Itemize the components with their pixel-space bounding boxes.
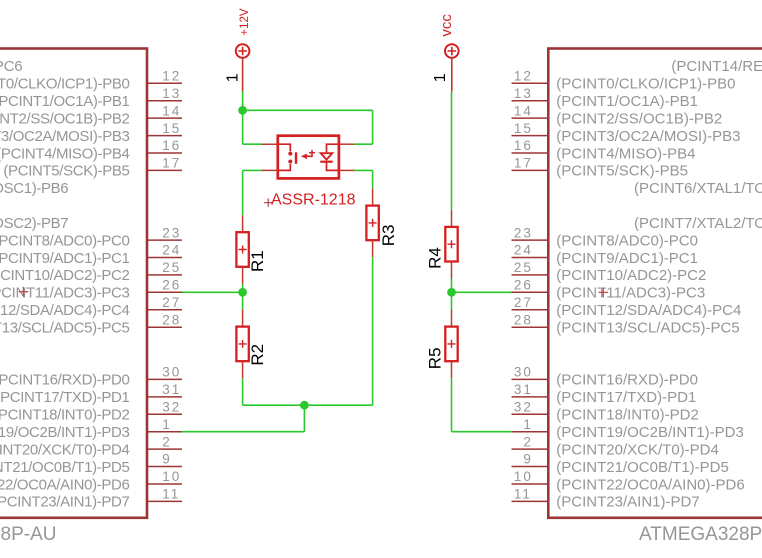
wire down to opto right-top pin: [372, 110, 374, 144]
svg-text:31: 31: [514, 382, 533, 397]
supply +12V pin: [242, 58, 244, 92]
IC U2 pin 16 stub: [512, 152, 549, 154]
svg-text:28: 28: [162, 312, 181, 327]
svg-text:(PCINT13/SCL/ADC5)-PC5: (PCINT13/SCL/ADC5)-PC5: [0, 320, 130, 337]
opto pin stubs: [261, 143, 277, 145]
svg-text:R5: R5: [426, 347, 445, 369]
IC U1 pin 30 stub: [147, 378, 182, 380]
IC U1 pin 24 stub: [147, 257, 182, 259]
IC U2 origin cross: [599, 288, 609, 298]
svg-text:ASSR-1218: ASSR-1218: [271, 191, 356, 208]
svg-text:27: 27: [514, 295, 533, 310]
resistor R3 body: [366, 206, 378, 241]
svg-text:2: 2: [162, 434, 172, 449]
resistor R2 body: [236, 327, 248, 362]
resistor R4 origin plus: [448, 240, 456, 248]
IC U1 pin 23 stub: [147, 239, 182, 241]
svg-text:15: 15: [514, 121, 533, 136]
svg-text:16: 16: [514, 138, 533, 153]
IC U2 pin 14 stub: [512, 117, 549, 119]
svg-text:1: 1: [523, 417, 533, 432]
svg-text:(PCINT18/INT0)-PD2: (PCINT18/INT0)-PD2: [0, 407, 130, 424]
svg-text:27: 27: [162, 295, 181, 310]
opto gate bar: [295, 152, 297, 164]
wire junction right toward opto: [243, 109, 373, 111]
svg-text:(PCINT1/OC1A)-PB1: (PCINT1/OC1A)-PB1: [0, 93, 130, 110]
svg-text:1: 1: [162, 417, 172, 432]
svg-text:(PCINT10/ADC2)-PC2: (PCINT10/ADC2)-PC2: [556, 267, 706, 284]
resistor R4 top pin: [451, 210, 453, 227]
IC U1 pin 32 stub: [147, 413, 182, 415]
svg-text:16: 16: [162, 138, 181, 153]
wire opto left-bottom pin to R1: [243, 169, 262, 171]
resistor R3 bottom pin: [372, 240, 374, 257]
wire R1 to junction PC3: [242, 284, 244, 293]
wire down to R3: [372, 170, 374, 188]
svg-text:1: 1: [432, 73, 449, 82]
IC U2 pin 30 stub: [512, 378, 549, 380]
opto origin cross: [264, 198, 272, 206]
svg-text:(PCINT1/OC1A)-PB1: (PCINT1/OC1A)-PB1: [556, 93, 698, 110]
svg-text:(PCINT20/XCK/T0)-PD4: (PCINT20/XCK/T0)-PD4: [0, 441, 130, 458]
wire R3 down to bottom rail: [372, 257, 374, 405]
svg-text:(PCINT8/ADC0)-PC0: (PCINT8/ADC0)-PC0: [0, 232, 130, 249]
svg-text:10: 10: [514, 469, 533, 484]
svg-text:(PCINT23/AIN1)-PD7: (PCINT23/AIN1)-PD7: [556, 494, 699, 511]
svg-text:2: 2: [523, 434, 533, 449]
resistor R1 top pin: [242, 215, 244, 232]
svg-text:17: 17: [514, 156, 533, 171]
wire +12V down to junction: [242, 91, 244, 110]
svg-text:vcc: vcc: [438, 14, 455, 37]
IC U2 pin 31 stub: [512, 396, 549, 398]
svg-text:(PCINT5/SCK)-PB5: (PCINT5/SCK)-PB5: [3, 163, 129, 180]
resistor R2 bottom pin: [242, 361, 244, 378]
resistor R5 body: [445, 327, 457, 362]
junction +12V node: [238, 106, 247, 115]
supply VCC pin: [451, 58, 453, 92]
IC U2 pin 28 stub: [512, 326, 549, 328]
IC U2 ATMEGA328P (right, partially off-screen) body outline: [548, 49, 762, 518]
IC U2 pin 27 stub: [512, 309, 549, 311]
svg-text:13: 13: [162, 86, 181, 101]
junction node PC3 left: [238, 288, 247, 297]
svg-text:(PCINT9/ADC1)-PC1: (PCINT9/ADC1)-PC1: [556, 250, 698, 267]
IC U1 pin 27 stub: [147, 309, 182, 311]
svg-text:11: 11: [162, 487, 180, 502]
svg-text:31: 31: [162, 382, 181, 397]
IC U2 pin 12 stub: [512, 82, 549, 84]
wire junction down to R2: [242, 292, 244, 309]
IC U1 pin 26 stub: [147, 291, 182, 293]
supply +12V plus sign: [238, 47, 247, 56]
svg-text:(PCINT12/SDA/ADC4)-PC4: (PCINT12/SDA/ADC4)-PC4: [556, 302, 741, 319]
wire down to R1: [242, 170, 244, 215]
svg-text:(PCINT2/SS/OC1B)-PB2: (PCINT2/SS/OC1B)-PB2: [556, 110, 722, 127]
svg-text:28: 28: [514, 312, 533, 327]
wire to right IC pin 1 (PD3): [452, 431, 512, 433]
IC U1 pin 12 stub: [147, 82, 182, 84]
junction node bottom: [300, 401, 309, 410]
svg-text:R3: R3: [379, 225, 398, 247]
svg-text:12: 12: [162, 69, 181, 84]
supply VCC plus sign: [448, 47, 457, 56]
supply VCC symbol circle: [445, 44, 459, 58]
opto arrow head: [301, 154, 307, 159]
resistor R5 top pin: [451, 310, 453, 327]
svg-text:(PCINT20/XCK/T0)-PD4: (PCINT20/XCK/T0)-PD4: [556, 441, 719, 458]
IC U1 pin 1 stub: [147, 431, 182, 433]
svg-text:(PCINT22/OC0A/AIN0)-PD6: (PCINT22/OC0A/AIN0)-PD6: [556, 476, 744, 493]
svg-text:(PCINT21/OC0B/T1)-PD5: (PCINT21/OC0B/T1)-PD5: [0, 459, 130, 476]
wire into opto left-top pin: [243, 143, 262, 145]
wire to right IC pin 26 (PC3): [452, 291, 512, 293]
IC U2 pin 11 stub: [512, 500, 549, 502]
svg-text:12: 12: [514, 69, 533, 84]
opto LED cathode bar: [320, 161, 332, 163]
svg-text:32: 32: [514, 400, 533, 415]
IC U1 pin 2 stub: [147, 448, 182, 450]
supply +12V symbol circle: [236, 44, 250, 58]
IC U1 pin 14 stub: [147, 117, 182, 119]
IC U2 pin 17 stub: [512, 169, 549, 171]
IC U2 pin 25 stub: [512, 274, 549, 276]
IC U2 pin 26 stub: [512, 291, 549, 293]
svg-text:30: 30: [162, 365, 181, 380]
svg-text:10: 10: [162, 469, 181, 484]
svg-text:9: 9: [523, 452, 533, 467]
svg-text:(PCINT4/MISO)-PB4: (PCINT4/MISO)-PB4: [0, 145, 130, 162]
svg-text:(PCINT3/OC2A/MOSI)-PB3: (PCINT3/OC2A/MOSI)-PB3: [556, 128, 740, 145]
svg-text:14: 14: [514, 103, 533, 118]
junction node PC3 right: [447, 288, 456, 297]
IC U2 pin 23 stub: [512, 239, 549, 241]
svg-text:(PCINT21/OC0B/T1)-PD5: (PCINT21/OC0B/T1)-PD5: [556, 459, 729, 476]
IC U1 ATMEGA328P-AU (left, partially off-screen) body outline: [0, 49, 147, 518]
svg-text:15: 15: [162, 121, 181, 136]
svg-text:(PCINT19/OC2B/INT1)-PD3: (PCINT19/OC2B/INT1)-PD3: [0, 424, 130, 441]
resistor R5 bottom pin: [451, 361, 453, 378]
resistor R2 top pin: [242, 310, 244, 327]
svg-text:(PCINT0/CLKO/ICP1)-PB0: (PCINT0/CLKO/ICP1)-PB0: [0, 76, 130, 93]
wire into opto right-top pin: [354, 143, 372, 145]
opto LED cathode lead: [327, 162, 339, 171]
svg-text:1: 1: [224, 73, 241, 82]
IC U1 pin 15 stub: [147, 135, 182, 137]
resistor R3 origin plus: [369, 219, 377, 227]
svg-text:(PCINT17/TXD)-PD1: (PCINT17/TXD)-PD1: [556, 389, 696, 406]
svg-text:32: 32: [162, 400, 181, 415]
svg-text:(PCINT7/XTAL2/TOSC2)-PB7: (PCINT7/XTAL2/TOSC2)-PB7: [0, 215, 68, 232]
IC U1 pin 28 stub: [147, 326, 182, 328]
resistor R4 body: [445, 227, 457, 262]
svg-text:(PCINT12/SDA/ADC4)-PC4: (PCINT12/SDA/ADC4)-PC4: [0, 302, 130, 319]
resistor R1 body: [236, 232, 248, 267]
wire R2 to bottom rail: [242, 378, 244, 405]
IC U2 pin 9 stub: [512, 466, 549, 468]
svg-text:25: 25: [162, 260, 181, 275]
svg-text:25: 25: [514, 260, 533, 275]
IC U1 pin 13 stub: [147, 100, 182, 102]
svg-text:26: 26: [162, 278, 181, 293]
opto LED triangle: [321, 153, 333, 159]
IC U2 pin 24 stub: [512, 257, 549, 259]
resistor R5 origin plus: [448, 340, 456, 348]
wire junction down left branch: [242, 110, 244, 144]
IC U2 pin 2 stub: [512, 448, 549, 450]
svg-text:R1: R1: [248, 250, 267, 272]
wire R4 to junction PC3 right: [451, 279, 453, 293]
opto plus mark: [309, 150, 315, 156]
svg-text:(PCINT8/ADC0)-PC0: (PCINT8/ADC0)-PC0: [556, 232, 698, 249]
svg-text:23: 23: [514, 225, 533, 240]
svg-text:(PCINT6/XTAL1/TOSC1)-PB6: (PCINT6/XTAL1/TOSC1)-PB6: [634, 180, 762, 197]
IC U2 pin 13 stub: [512, 100, 549, 102]
svg-text:11: 11: [514, 487, 532, 502]
IC U1 pin 31 stub: [147, 396, 182, 398]
IC U2 pin 15 stub: [512, 135, 549, 137]
opto MOSFET contact rail: [278, 144, 291, 170]
svg-text:24: 24: [162, 243, 181, 258]
IC U1 pin 16 stub: [147, 152, 182, 154]
svg-text:+12V: +12V: [239, 8, 251, 36]
svg-text:(PCINT22/OC0A/AIN0)-PD6: (PCINT22/OC0A/AIN0)-PD6: [0, 476, 130, 493]
svg-text:(PCINT5/SCK)-PB5: (PCINT5/SCK)-PB5: [556, 163, 688, 180]
resistor R2 origin plus: [239, 340, 247, 348]
svg-text:(PCINT11/ADC3)-PC3: (PCINT11/ADC3)-PC3: [0, 285, 130, 302]
svg-text:(PCINT18/INT0)-PD2: (PCINT18/INT0)-PD2: [556, 407, 699, 424]
svg-text:(PCINT17/TXD)-PD1: (PCINT17/TXD)-PD1: [0, 389, 130, 406]
opto-relay OK1 ASSR-1218 body: [278, 136, 339, 179]
svg-text:(PCINT3/OC2A/MOSI)-PB3: (PCINT3/OC2A/MOSI)-PB3: [0, 128, 130, 145]
resistor R3 top pin: [372, 189, 374, 206]
svg-text:(PCINT23/AIN1)-PD7: (PCINT23/AIN1)-PD7: [0, 494, 130, 511]
opto contact dot bottom: [288, 160, 292, 164]
svg-text:(PCINT0/CLKO/ICP1)-PB0: (PCINT0/CLKO/ICP1)-PB0: [556, 76, 735, 93]
svg-text:24: 24: [514, 243, 533, 258]
svg-text:(PCINT16/RXD)-PD0: (PCINT16/RXD)-PD0: [0, 372, 130, 389]
svg-text:(PCINT13/SCL/ADC5)-PC5: (PCINT13/SCL/ADC5)-PC5: [556, 320, 739, 337]
svg-text:30: 30: [514, 365, 533, 380]
svg-text:ATMEGA328P-AU: ATMEGA328P-AU: [0, 524, 57, 545]
svg-text:(PCINT14/RESET)-PC6: (PCINT14/RESET)-PC6: [671, 58, 762, 75]
svg-text:14: 14: [162, 103, 181, 118]
svg-text:(PCINT11/ADC3)-PC3: (PCINT11/ADC3)-PC3: [556, 285, 705, 302]
svg-text:(PCINT6/XTAL1/TOSC1)-PB6: (PCINT6/XTAL1/TOSC1)-PB6: [0, 180, 68, 197]
IC U2 pin 1 stub: [512, 431, 549, 433]
bottom rail wire R2-R3: [243, 404, 373, 406]
svg-text:(PCINT19/OC2B/INT1)-PD3: (PCINT19/OC2B/INT1)-PD3: [556, 424, 744, 441]
IC U1 pin 25 stub: [147, 274, 182, 276]
svg-text:26: 26: [514, 278, 533, 293]
wire to left IC pin 1 (PD3): [182, 431, 304, 433]
svg-text:(PCINT9/ADC1)-PC1: (PCINT9/ADC1)-PC1: [0, 250, 130, 267]
wire junction down to R5: [451, 292, 453, 309]
svg-text:9: 9: [162, 452, 172, 467]
svg-text:R2: R2: [248, 344, 267, 366]
wire from left IC pin 26: [182, 291, 243, 293]
svg-text:(PCINT14/RESET)-PC6: (PCINT14/RESET)-PC6: [0, 58, 22, 75]
svg-text:ATMEGA328P-AU: ATMEGA328P-AU: [639, 524, 762, 545]
wire opto right-bottom pin toward R3: [354, 169, 372, 171]
svg-text:(PCINT7/XTAL2/TOSC2)-PB7: (PCINT7/XTAL2/TOSC2)-PB7: [634, 215, 762, 232]
resistor R4 bottom pin: [451, 262, 453, 279]
IC U1 pin 17 stub: [147, 169, 182, 171]
wire R5 down: [451, 378, 453, 432]
IC U2 pin 32 stub: [512, 413, 549, 415]
IC U2 pin 10 stub: [512, 483, 549, 485]
resistor R1 bottom pin: [242, 267, 244, 284]
IC U1 pin 10 stub: [147, 483, 182, 485]
IC U1 pin 11 stub: [147, 500, 182, 502]
svg-text:(PCINT4/MISO)-PB4: (PCINT4/MISO)-PB4: [556, 145, 695, 162]
svg-text:17: 17: [162, 156, 181, 171]
opto LED anode lead: [327, 144, 339, 152]
svg-text:13: 13: [514, 86, 533, 101]
svg-text:R4: R4: [426, 247, 445, 269]
opto arrow shaft: [305, 155, 313, 157]
IC U1 pin 9 stub: [147, 466, 182, 468]
IC U1 origin cross: [19, 287, 29, 297]
wire bottom junction down: [303, 405, 305, 432]
resistor R1 origin plus: [239, 246, 247, 254]
svg-text:(PCINT10/ADC2)-PC2: (PCINT10/ADC2)-PC2: [0, 267, 130, 284]
svg-text:(PCINT2/SS/OC1B)-PB2: (PCINT2/SS/OC1B)-PB2: [0, 110, 130, 127]
wire VCC down to R4: [451, 91, 453, 209]
svg-text:(PCINT16/RXD)-PD0: (PCINT16/RXD)-PD0: [556, 372, 698, 389]
svg-text:23: 23: [162, 225, 181, 240]
opto contact dot top: [288, 152, 292, 156]
